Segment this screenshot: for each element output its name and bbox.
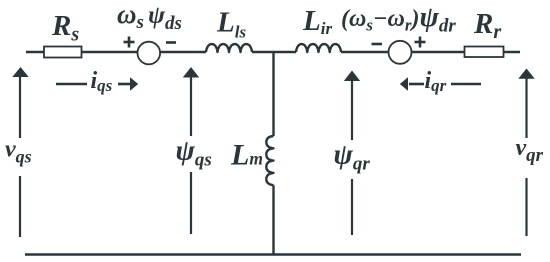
- source U2 (speed voltage (ω_s-ω_r)ψ_dr): [341, 1, 456, 64]
- voltage arrow v_qs: [5, 67, 32, 237]
- current arrow i_qs: [56, 68, 138, 95]
- svg-text:Lm: Lm: [230, 139, 263, 172]
- svg-text:Rr: Rr: [473, 8, 501, 43]
- resistor R_s: [44, 10, 82, 58]
- svg-text:ψqs: ψqs: [176, 135, 212, 171]
- svg-text:iqs: iqs: [91, 68, 113, 95]
- wire middle branch upper: [272, 52, 274, 136]
- svg-text:Rs: Rs: [51, 10, 79, 46]
- svg-text:vqs: vqs: [5, 136, 32, 166]
- wire L_ls to node / to L_lr: [252, 51, 296, 53]
- wire R_s to source: [82, 51, 138, 53]
- polarity - (left source): [166, 41, 176, 44]
- svg-text:vqr: vqr: [516, 135, 544, 166]
- wire top rail left stub: [26, 51, 45, 53]
- wire bottom rail: [25, 253, 521, 256]
- source U1 (speed voltage ω_s ψ_ds): [117, 0, 182, 64]
- svg-text:ψqr: ψqr: [334, 138, 371, 174]
- inductor L_m: [230, 136, 274, 185]
- polarity - (right source): [372, 43, 383, 46]
- svg-text:Lls: Lls: [216, 7, 246, 42]
- polarity + (left source): [124, 37, 135, 48]
- svg-text:iqr: iqr: [425, 68, 447, 95]
- wire source to L_ls: [160, 51, 206, 53]
- wire top rail right stub: [503, 51, 520, 53]
- voltage arrow v_qr: [516, 69, 544, 237]
- inductor L_ls: [206, 7, 252, 52]
- svg-text:ωsψds: ωsψds: [117, 0, 182, 34]
- wire middle branch lower: [272, 185, 274, 254]
- wire source U2 to R_r: [411, 51, 464, 53]
- svg-text:(ωs−ωr)ψdr: (ωs−ωr)ψdr: [341, 1, 456, 37]
- inductor L_lr: [296, 5, 341, 52]
- polarity + (right source): [415, 37, 426, 48]
- svg-text:Lir: Lir: [302, 5, 332, 38]
- current arrow i_qr: [400, 68, 481, 95]
- flux arrow ψ_qr: [334, 71, 371, 236]
- resistor R_r: [465, 8, 504, 57]
- flux arrow ψ_qs: [176, 67, 212, 234]
- wire L_lr to source U2: [341, 51, 389, 53]
